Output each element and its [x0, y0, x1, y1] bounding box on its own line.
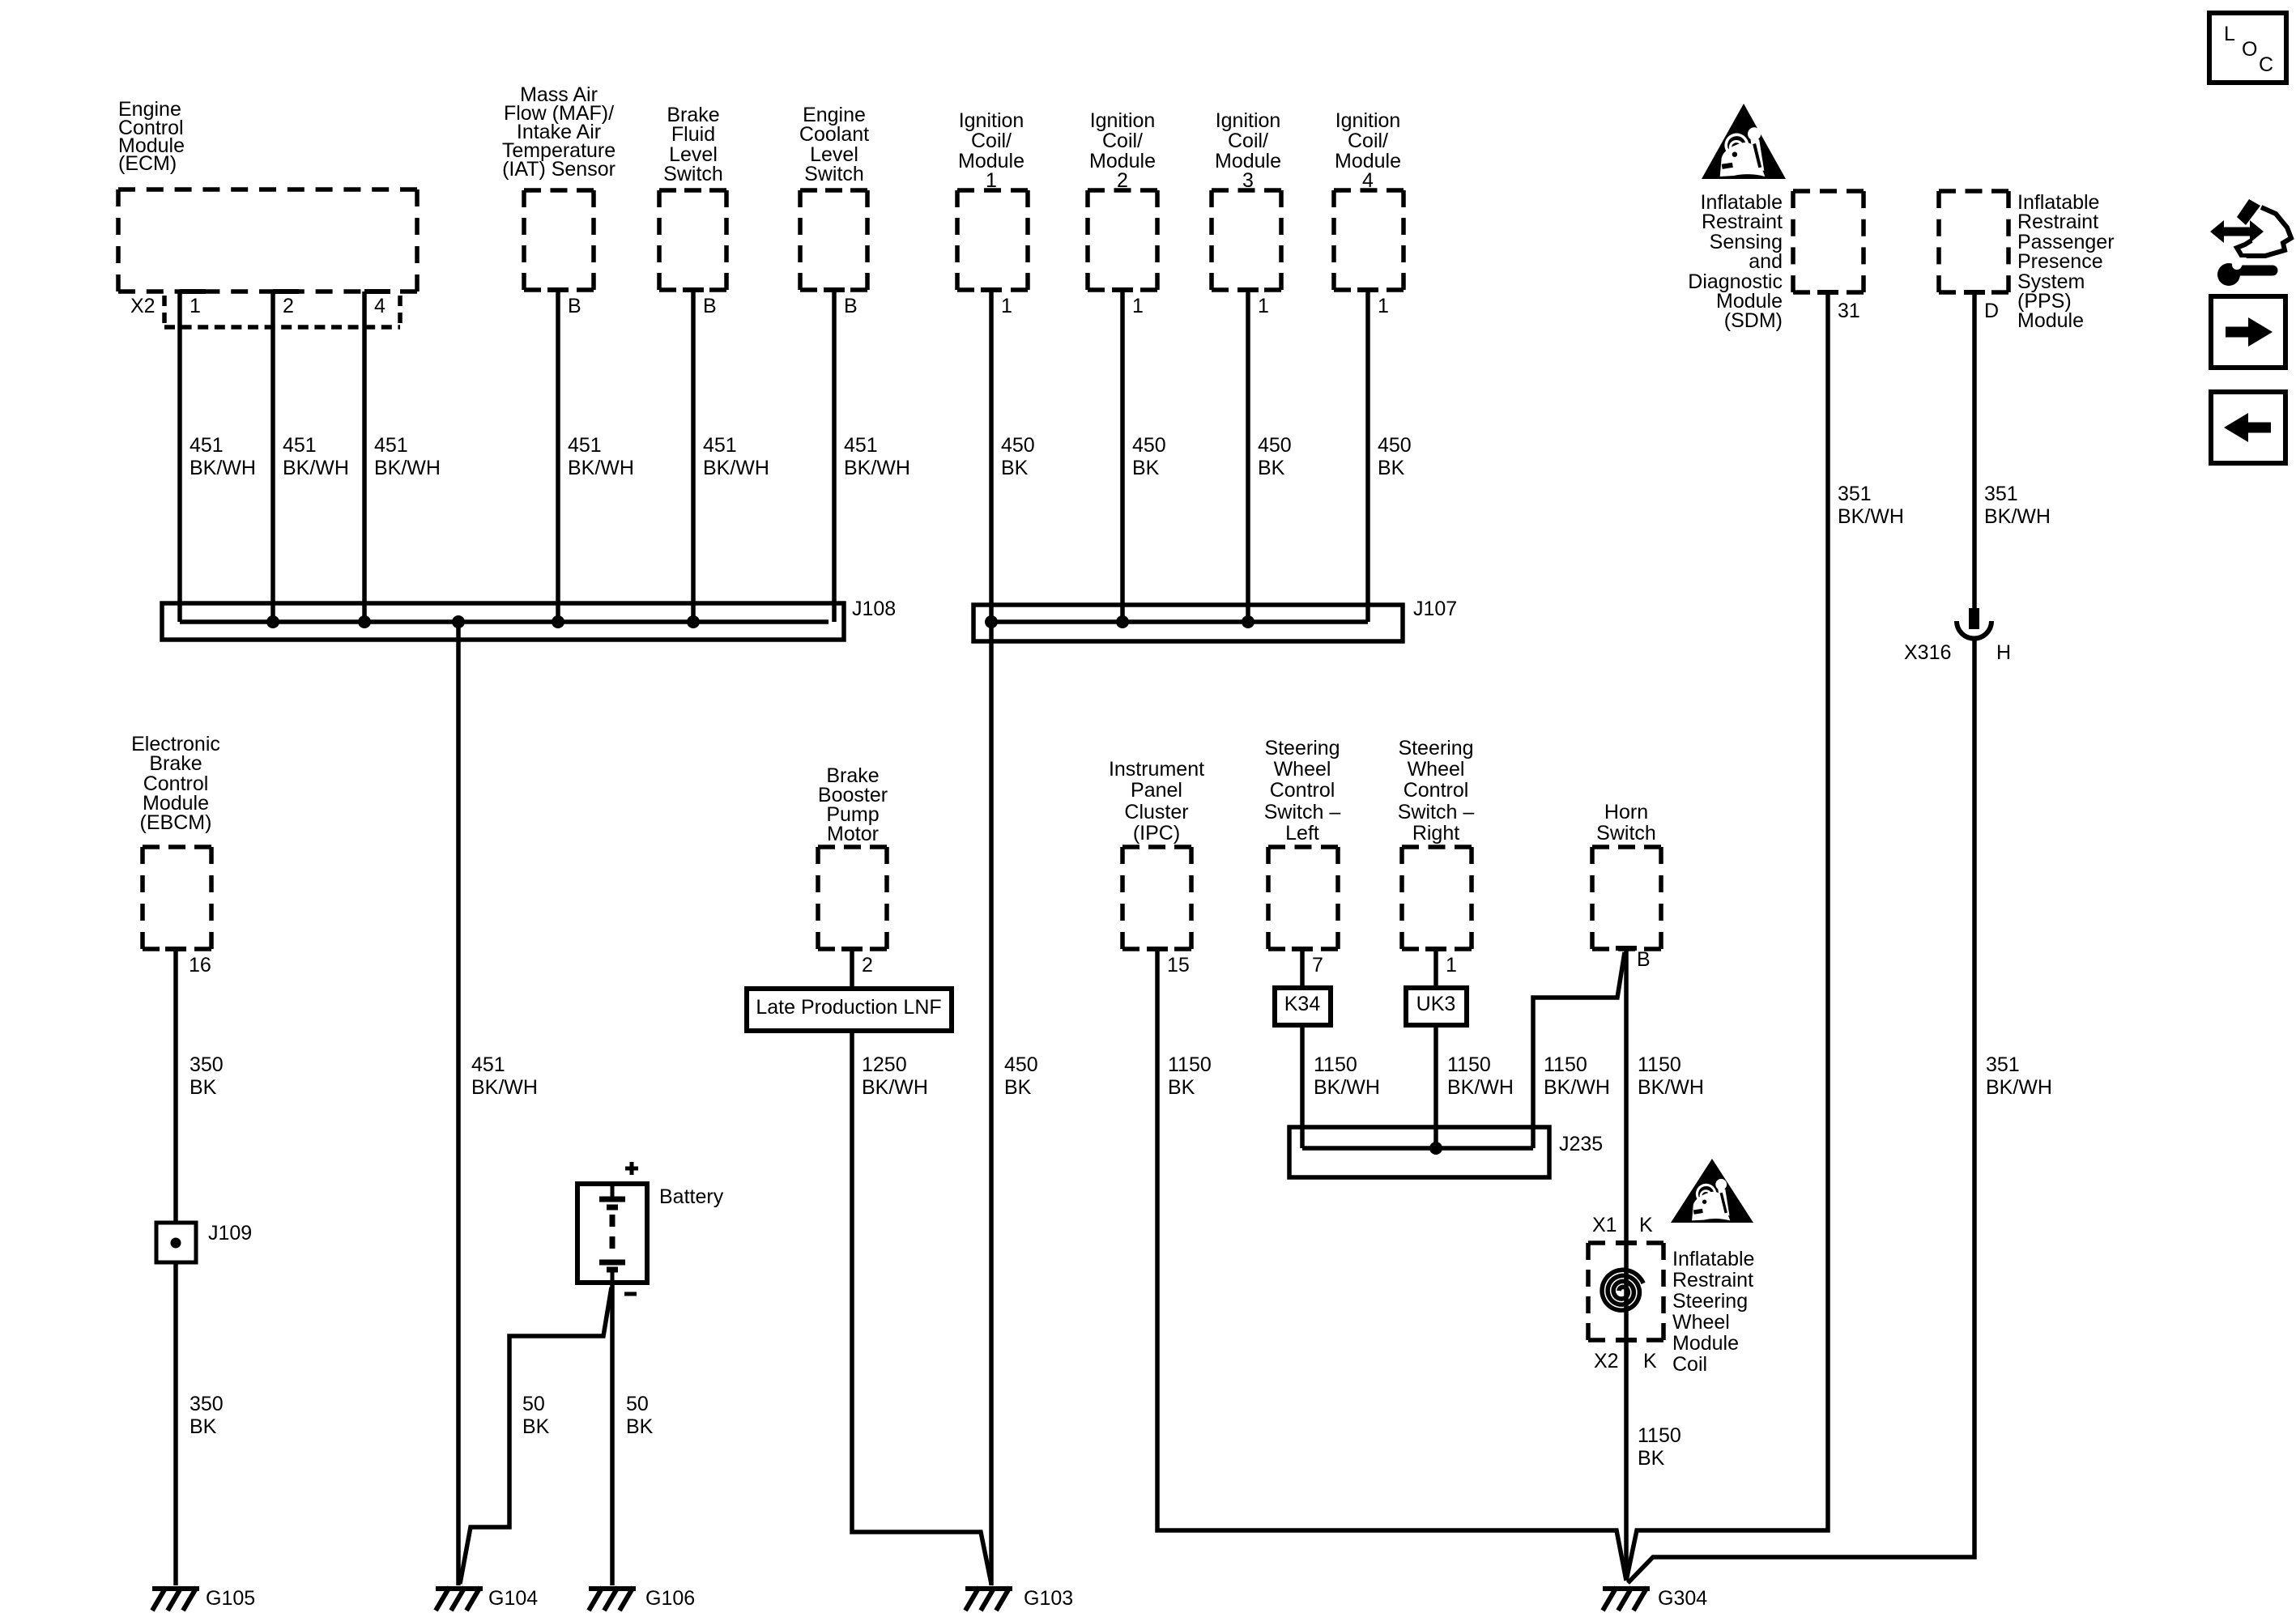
wire 451 BK/WH from BFL switch to J108 [691, 290, 696, 622]
svg-text:Ignition: Ignition [1335, 109, 1401, 132]
svg-text:G105: G105 [206, 1587, 255, 1610]
wire 450 BK from coil 2 to J107 [1120, 290, 1125, 622]
svg-text:G106: G106 [645, 1587, 695, 1610]
wire label 351 BK/WH (PPS lower) [1986, 1053, 2052, 1099]
wire 1150 BK/WH from K34 to J235 [1300, 1025, 1305, 1148]
wire label 1150 BK (IPC) [1168, 1053, 1212, 1099]
svg-text:Module: Module [2017, 309, 2084, 332]
junction dot J107/coil2 [1116, 615, 1129, 628]
svg-text:Right: Right [1412, 822, 1459, 845]
svg-text:X316: X316 [1904, 641, 1951, 664]
Ignition Coil/Module 1 dashed box [957, 190, 1028, 290]
Steering Wheel Control Switch Left dashed box [1268, 847, 1338, 949]
wire 1150 BK/WH / 1150 BK from horn switch through SRS coil to G304 [1624, 948, 1629, 1581]
wire 50 BK from battery negative to G106 [610, 1283, 615, 1585]
svg-text:15: 15 [1167, 954, 1190, 977]
svg-text:1150: 1150 [1447, 1053, 1491, 1076]
battery - terminal label [624, 1292, 637, 1296]
pin tick [1147, 947, 1168, 951]
wire 1250 BK/WH from LNF box to G103 [852, 1031, 991, 1584]
wire label 450 BK [1378, 434, 1412, 479]
svg-text:1: 1 [1132, 295, 1144, 317]
component pin tick [547, 287, 569, 292]
svg-text:J235: J235 [1559, 1133, 1603, 1155]
label Ignition Coil/Module 1 [958, 109, 1024, 192]
svg-text:Module: Module [1672, 1332, 1739, 1355]
svg-text:Panel: Panel [1131, 779, 1182, 802]
svg-text:B: B [568, 295, 581, 317]
pin tick [1292, 947, 1313, 951]
svg-text:451: 451 [190, 434, 224, 457]
svg-text:Coil/: Coil/ [1228, 130, 1268, 152]
wire 451 BK/WH from J108 to G104 [456, 622, 461, 1585]
Steering Wheel Control Switch Right dashed box [1402, 847, 1472, 949]
svg-text:Restraint: Restraint [1672, 1269, 1753, 1291]
label Steering Wheel Control Switch - Left [1264, 737, 1341, 845]
svg-text:4: 4 [374, 295, 386, 317]
label Horn Switch [1596, 801, 1656, 845]
label Brake Booster Pump Motor [818, 764, 888, 845]
coil top tick [1616, 1240, 1637, 1245]
svg-text:BK: BK [1168, 1076, 1195, 1099]
svg-text:1: 1 [1378, 295, 1389, 317]
svg-text:Control: Control [1404, 779, 1469, 802]
svg-text:50: 50 [626, 1393, 649, 1415]
EBCM dashed box [143, 847, 211, 949]
svg-text:L: L [2224, 23, 2235, 45]
svg-text:X2: X2 [1594, 1350, 1619, 1372]
svg-text:Switch: Switch [663, 163, 723, 185]
wire label 450 BK (J107 output) [1004, 1053, 1038, 1099]
wire label 1250 BK/WH [862, 1053, 928, 1099]
svg-text:BK/WH: BK/WH [1838, 505, 1904, 528]
svg-text:K: K [1639, 1214, 1653, 1236]
svg-text:Restraint: Restraint [2017, 211, 2098, 233]
label Electronic Brake Control Module (EBCM) [131, 733, 220, 834]
wire stub SW left pin 7 to K34 [1300, 949, 1305, 988]
wire 451 BK/WH from ECM pin 2 to J108 [270, 291, 275, 622]
svg-text:Switch: Switch [1596, 822, 1656, 845]
wire 350 BK from J109 to G105 [173, 1262, 178, 1585]
svg-text:Horn: Horn [1604, 801, 1648, 823]
svg-text:2: 2 [862, 954, 873, 977]
svg-text:Left: Left [1285, 822, 1319, 845]
svg-text:350: 350 [190, 1393, 224, 1415]
svg-text:50: 50 [522, 1393, 545, 1415]
wire label 451 BK/WH [190, 434, 256, 479]
component pin tick [981, 287, 1002, 292]
svg-text:B: B [703, 295, 717, 317]
svg-text:451: 451 [568, 434, 602, 457]
label Engine Control Module (ECM) [118, 98, 185, 175]
RPO tag UK3 [1406, 988, 1467, 1025]
svg-text:H: H [1996, 641, 2011, 664]
label Steering Wheel Control Switch - Right [1398, 737, 1475, 845]
coil bottom tick [1616, 1338, 1637, 1343]
ground G106 [589, 1587, 636, 1611]
svg-text:1150: 1150 [1638, 1053, 1681, 1076]
svg-text:Inflatable: Inflatable [1672, 1248, 1754, 1270]
svg-text:2: 2 [283, 295, 294, 317]
svg-text:7: 7 [1312, 954, 1323, 977]
svg-text:G304: G304 [1658, 1587, 1707, 1610]
wire 1150 BK from IPC pin 15 to G304 [1157, 949, 1626, 1581]
svg-text:351: 351 [1838, 483, 1872, 505]
svg-text:C: C [2259, 53, 2273, 76]
svg-text:Steering: Steering [1264, 737, 1340, 760]
wire label 1150 BK/WH (horn main) [1638, 1053, 1704, 1099]
svg-text:450: 450 [1378, 434, 1412, 457]
svg-text:Brake: Brake [149, 752, 202, 775]
wire 351 BK/WH from SDM pin 31 to G304 [1626, 292, 1828, 1581]
svg-text:Coil/: Coil/ [1102, 130, 1143, 152]
wire 451 BK/WH from ECM pin 1 to J108 [177, 291, 182, 622]
component pin tick [1237, 287, 1259, 292]
svg-text:G103: G103 [1024, 1587, 1073, 1610]
svg-text:Cluster: Cluster [1124, 801, 1188, 823]
SRS warning triangle icon (near coil) [1671, 1159, 1753, 1223]
RPO tag K34 [1275, 988, 1331, 1025]
svg-text:BK: BK [190, 1415, 217, 1438]
wire label 451 BK/WH [844, 434, 910, 479]
MAF/IAT sensor dashed box [524, 190, 594, 290]
svg-text:BK: BK [1638, 1447, 1665, 1470]
svg-text:BK/WH: BK/WH [1986, 1076, 2052, 1099]
splice J109 [156, 1223, 196, 1262]
svg-text:Steering: Steering [1672, 1290, 1748, 1313]
wire 351 BK/WH from PPS pin D to X316 [1972, 292, 1977, 610]
junction dot J107 output [985, 615, 998, 628]
wire label 1150 BK/WH (UK3 leg) [1447, 1053, 1514, 1099]
Inflatable Restraint Steering Wheel Module Coil dashed box [1588, 1243, 1663, 1340]
pin tick [841, 947, 863, 951]
svg-text:J107: J107 [1413, 598, 1457, 620]
svg-text:451: 451 [471, 1053, 505, 1076]
ECM pin tick [180, 289, 206, 294]
wire stub SW right pin 1 to UK3 [1433, 949, 1438, 988]
wire label 451 BK/WH [703, 434, 769, 479]
svg-text:351: 351 [1984, 483, 2018, 505]
wire label 451 BK/WH [568, 434, 634, 479]
svg-text:BK: BK [190, 1076, 217, 1099]
wire label 351 BK/WH (PPS) [1984, 483, 2051, 528]
svg-text:O: O [2242, 38, 2257, 61]
wire label 1150 BK (coil to G304) [1638, 1424, 1681, 1470]
wire label 50 BK (to G104) [522, 1393, 550, 1438]
junction block J235 [1289, 1127, 1549, 1177]
ECM pin tick [273, 289, 299, 294]
wire 451 BK/WH from MAF/IAT to J108 [556, 290, 560, 622]
svg-text:1150: 1150 [1544, 1053, 1587, 1076]
svg-text:Ignition: Ignition [959, 109, 1024, 132]
svg-text:UK3: UK3 [1416, 993, 1456, 1015]
wire 350 BK from EBCM pin 16 to J109 [173, 949, 178, 1223]
Horn Switch pin tick [1616, 946, 1637, 951]
junction dot J108/BFL [687, 615, 700, 628]
wire label 50 BK (to G106) [626, 1393, 654, 1438]
svg-text:1150: 1150 [1638, 1424, 1681, 1447]
wire label 450 BK [1132, 434, 1166, 479]
svg-text:451: 451 [283, 434, 317, 457]
label Ignition Coil/Module 4 [1335, 109, 1401, 192]
svg-text:(ECM): (ECM) [118, 152, 177, 175]
svg-text:1: 1 [1001, 295, 1012, 317]
svg-text:16: 16 [189, 954, 211, 977]
svg-text:BK: BK [1258, 457, 1285, 479]
ground G103 [965, 1587, 1012, 1611]
component pin tick [1357, 287, 1378, 292]
svg-text:1: 1 [1446, 954, 1457, 977]
wire 450 BK from coil 1 to J107 [989, 290, 994, 622]
svg-text:Fluid: Fluid [671, 123, 715, 146]
svg-text:BK/WH: BK/WH [471, 1076, 538, 1099]
SRS warning triangle icon (top, near SDM) [1702, 104, 1786, 179]
component pin tick [683, 287, 704, 292]
wire 451 BK/WH from ECM pin 4 to J108 [362, 291, 367, 622]
wire label 451 BK/WH [283, 434, 349, 479]
label Inflatable Restraint Sensing and Diagnostic Module (SDM) [1688, 191, 1783, 332]
svg-text:BK: BK [1004, 1076, 1032, 1099]
component pin tick [824, 287, 845, 292]
svg-text:450: 450 [1258, 434, 1292, 457]
svg-text:BK: BK [522, 1415, 550, 1438]
ground G105 [152, 1587, 199, 1611]
junction dot J108/pin4 [358, 615, 371, 628]
label Ignition Coil/Module 2 [1089, 109, 1156, 192]
svg-text:J108: J108 [852, 598, 896, 620]
wire 1150 BK/WH branch from horn switch to J235 [1533, 952, 1625, 1148]
pin tick [165, 947, 186, 951]
svg-text:31: 31 [1838, 300, 1860, 322]
label Instrument Panel Cluster (IPC) [1109, 758, 1204, 845]
svg-text:BK/WH: BK/WH [844, 457, 910, 479]
Ignition Coil/Module 3 dashed box [1212, 190, 1281, 290]
svg-text:Ignition: Ignition [1090, 109, 1156, 132]
svg-text:BK/WH: BK/WH [1984, 505, 2051, 528]
wire stub brake booster pin 2 [850, 949, 854, 989]
svg-text:Coil/: Coil/ [1348, 130, 1388, 152]
svg-text:B: B [1637, 948, 1651, 971]
svg-text:1150: 1150 [1168, 1053, 1212, 1076]
svg-text:Late Production LNF: Late Production LNF [756, 996, 941, 1019]
wire 1150 BK/WH from UK3 to J235 [1433, 1025, 1438, 1148]
label Inflatable Restraint Steering Wheel Module Coil [1672, 1248, 1754, 1376]
svg-text:(IAT) Sensor: (IAT) Sensor [502, 158, 616, 181]
junction dot J108/MAF [552, 615, 564, 628]
wire 451 BK/WH from ECL switch to J108 [832, 290, 837, 622]
LOC legend box (top-right) [2209, 13, 2286, 83]
wire 351 BK/WH from X316 to G304 [1628, 638, 1974, 1583]
svg-text:451: 451 [703, 434, 737, 457]
svg-text:Wheel: Wheel [1672, 1311, 1730, 1334]
junction dot J235/UK3 leg [1429, 1142, 1442, 1155]
left-arrow legend box [2211, 392, 2285, 463]
svg-text:BK: BK [626, 1415, 654, 1438]
label Engine Coolant Level Switch [799, 104, 869, 185]
IPC dashed box [1122, 847, 1191, 949]
svg-text:BK/WH: BK/WH [1544, 1076, 1610, 1099]
pin tick [1425, 947, 1446, 951]
svg-text:1250: 1250 [862, 1053, 907, 1076]
svg-text:Restraint: Restraint [1702, 211, 1783, 233]
svg-text:X1: X1 [1592, 1214, 1617, 1236]
component pin tick [1112, 287, 1133, 292]
wire label 351 BK/WH (SDM) [1838, 483, 1904, 528]
svg-text:Presence: Presence [2017, 250, 2103, 273]
svg-text:Ignition: Ignition [1216, 109, 1281, 132]
label Inflatable Restraint Passenger Presence System (PPS) Module [2017, 191, 2115, 332]
svg-text:Switch –: Switch – [1398, 801, 1475, 823]
svg-text:K34: K34 [1284, 993, 1321, 1015]
svg-text:1: 1 [1258, 295, 1269, 317]
svg-text:351: 351 [1986, 1053, 2020, 1076]
svg-text:451: 451 [374, 434, 408, 457]
svg-text:350: 350 [190, 1053, 224, 1076]
svg-text:BK/WH: BK/WH [1314, 1076, 1380, 1099]
svg-text:Switch: Switch [804, 163, 864, 185]
PPS pin tick [1964, 290, 1985, 295]
svg-text:(IPC): (IPC) [1133, 822, 1180, 845]
ECM X2 connector strip (dashed, 3 sides) [164, 296, 400, 327]
svg-text:Motor: Motor [827, 823, 879, 845]
wire label 350 BK (lower) [190, 1393, 224, 1438]
Brake Booster Pump Motor dashed box [818, 847, 887, 949]
svg-text:BK/WH: BK/WH [283, 457, 349, 479]
SDM pin tick [1817, 290, 1838, 295]
svg-text:Coil: Coil [1672, 1353, 1707, 1376]
wire 450 BK from coil 3 to J107 [1246, 290, 1250, 622]
Brake Fluid Level Switch dashed box [659, 190, 726, 290]
Late Production LNF tag box [747, 989, 952, 1031]
svg-text:BK/WH: BK/WH [1638, 1076, 1704, 1099]
svg-text:Wheel: Wheel [1408, 758, 1465, 781]
wire label 451 BK/WH [374, 434, 441, 479]
svg-text:Battery: Battery [659, 1185, 724, 1208]
svg-text:(EBCM): (EBCM) [140, 811, 212, 834]
svg-text:BK/WH: BK/WH [862, 1076, 928, 1099]
svg-text:BK: BK [1378, 457, 1405, 479]
svg-text:BK/WH: BK/WH [190, 457, 256, 479]
wire 450 BK from J107 to G103 [989, 622, 994, 1585]
junction block J107 [973, 605, 1403, 641]
svg-text:Coolant: Coolant [799, 123, 869, 146]
svg-text:and: and [1749, 250, 1783, 273]
svg-text:Control: Control [1270, 779, 1335, 802]
svg-text:BK/WH: BK/WH [568, 457, 634, 479]
svg-text:Instrument: Instrument [1109, 758, 1204, 781]
wire label 451 BK/WH (J108 output) [471, 1053, 538, 1099]
wire label 450 BK [1001, 434, 1035, 479]
junction dot J108/pin2 [266, 615, 279, 628]
svg-text:Steering: Steering [1398, 737, 1473, 760]
ground G304 [1603, 1587, 1650, 1611]
label Mass Air Flow (MAF)/Intake Air Temperature (IAT) Sensor [502, 83, 616, 181]
svg-text:450: 450 [1132, 434, 1166, 457]
svg-text:450: 450 [1004, 1053, 1038, 1076]
wire label 1150 BK/WH (K34 leg) [1314, 1053, 1380, 1099]
svg-text:X2: X2 [130, 295, 155, 317]
ECM module U1 dashed box [118, 189, 417, 291]
ground G104 [436, 1587, 483, 1611]
SDM dashed box [1793, 191, 1864, 292]
svg-text:451: 451 [844, 434, 878, 457]
wire label 1150 BK/WH (J235 right leg) [1544, 1053, 1610, 1099]
label Ignition Coil/Module 3 [1215, 109, 1281, 192]
battery [577, 1184, 647, 1283]
wire 450 BK from coil 4 to J107 [1365, 290, 1370, 622]
svg-text:Wheel: Wheel [1274, 758, 1331, 781]
junction dot J107/coil3 [1242, 615, 1254, 628]
svg-text:J109: J109 [208, 1222, 252, 1245]
junction block J108 [162, 603, 844, 640]
svg-text:(SDM): (SDM) [1724, 309, 1783, 332]
label Brake Fluid Level Switch [663, 104, 723, 185]
svg-text:D: D [1984, 300, 1999, 322]
junction dot J109 [171, 1238, 181, 1249]
svg-text:G104: G104 [488, 1587, 538, 1610]
wire label 450 BK [1258, 434, 1292, 479]
svg-text:B: B [844, 295, 858, 317]
svg-text:BK/WH: BK/WH [1447, 1076, 1514, 1099]
svg-text:Switch –: Switch – [1264, 801, 1341, 823]
svg-text:1150: 1150 [1314, 1053, 1357, 1076]
Ignition Coil/Module 2 dashed box [1088, 190, 1157, 290]
svg-text:BK/WH: BK/WH [703, 457, 769, 479]
service wrench and arrows icon (right margin) [2210, 199, 2291, 286]
Horn Switch dashed box [1592, 847, 1661, 949]
junction dot J108 output [452, 615, 465, 628]
svg-text:K: K [1643, 1350, 1657, 1372]
svg-text:BK: BK [1001, 457, 1029, 479]
ECM pin tick [364, 289, 390, 294]
clockspring coil spiral symbol [1602, 1270, 1643, 1310]
in-line connector X316 pin H [1957, 608, 1991, 639]
wire label 350 BK (upper) [190, 1053, 224, 1099]
svg-text:BK: BK [1132, 457, 1160, 479]
wire 50 BK from battery negative to G104 [460, 1287, 611, 1584]
svg-text:Coil/: Coil/ [971, 130, 1012, 152]
svg-text:BK/WH: BK/WH [374, 457, 441, 479]
Ignition Coil/Module 4 dashed box [1334, 190, 1404, 290]
PPS module dashed box [1939, 191, 2008, 292]
Engine Coolant Level Switch dashed box [800, 190, 867, 290]
right-arrow legend box [2211, 296, 2285, 368]
svg-text:1: 1 [190, 295, 201, 317]
battery + terminal label [625, 1162, 638, 1175]
svg-text:450: 450 [1001, 434, 1035, 457]
